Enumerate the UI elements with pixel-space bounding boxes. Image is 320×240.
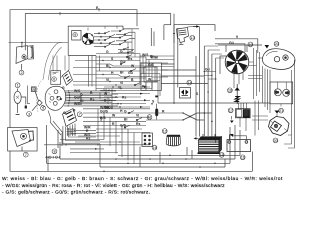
switch contacts cluster (handlebar): [94, 26, 135, 60]
svg-text:W/Bl: W/Bl: [74, 102, 82, 106]
svg-text:G: G: [120, 50, 123, 54]
component 2 box (front brake light switch): [16, 43, 34, 70]
svg-text:Bl: Bl: [106, 64, 109, 68]
wire mesh horizontals center: [60, 54, 174, 144]
svg-text:≡: ≡: [120, 102, 122, 106]
svg-text:G/S: G/S: [148, 63, 155, 67]
svg-text:W/S: W/S: [142, 53, 149, 57]
component 12 horn: [162, 128, 180, 145]
svg-text:8: 8: [54, 149, 56, 154]
svg-text:Bl: Bl: [124, 118, 127, 122]
svg-text:Vi: Vi: [118, 85, 121, 89]
component 10 tilted connector: [63, 109, 77, 137]
svg-text:9: 9: [236, 35, 238, 39]
svg-text:18: 18: [228, 88, 232, 93]
component 13 ignition coil: [173, 25, 215, 45]
svg-text:Rs: Rs: [122, 95, 126, 99]
component 7 horn box: [8, 128, 37, 152]
label circled 10: [77, 112, 82, 117]
svg-text:W: weiss - Bl: blau - G: gelb: W: weiss - Bl: blau - G: gelb - B: braun…: [2, 176, 283, 182]
label circled 18: [228, 88, 233, 93]
wires tail light drop: [263, 66, 271, 113]
switch contacts mesh: [120, 55, 142, 129]
svg-text:Rs: Rs: [128, 57, 132, 61]
svg-text:Gü: Gü: [205, 68, 210, 72]
wires right drop to relays: [231, 101, 268, 136]
wire rows low-left: [70, 148, 118, 153]
svg-text:1: 1: [17, 83, 19, 88]
component 9 ignition switch: [72, 28, 94, 45]
svg-text:17: 17: [229, 108, 233, 113]
component 19 flywheel magneto: [225, 50, 249, 74]
wire X crossing: [146, 112, 212, 120]
tiny wire labels: [62, 6, 210, 128]
svg-text:Gü: Gü: [229, 41, 234, 45]
svg-text:W/Gü: W/Gü: [104, 105, 113, 109]
svg-text:5: 5: [42, 105, 44, 110]
label circled 5: [41, 105, 46, 110]
label circled 2: [19, 70, 24, 75]
svg-text:G: G: [62, 86, 65, 90]
svg-text:- G/S: gelb/schwarz - Gü/S: gr: - G/S: gelb/schwarz - Gü/S: grün/schwarz…: [2, 189, 150, 195]
wire coil box right extension: [215, 35, 258, 53]
label circled 7: [23, 152, 28, 157]
label circled 16: [152, 145, 157, 150]
label circled 8: [52, 149, 57, 154]
svg-text:Rs: Rs: [86, 136, 90, 140]
wire left below horn: [10, 151, 48, 171]
svg-text:9: 9: [74, 32, 76, 37]
wire top loop inner: [25, 14, 170, 50]
label circled 20 tail: [274, 41, 280, 46]
svg-text:3: 3: [28, 111, 30, 116]
label circled 3: [27, 111, 32, 116]
wire tick top: [98, 8, 100, 11]
label circled 1: [15, 83, 20, 88]
label circled 21: [279, 108, 284, 113]
wire mesh verticals center: [53, 54, 160, 165]
component 18 spark plug: [235, 84, 240, 104]
label circled 20b: [273, 138, 279, 143]
svg-text:7: 7: [79, 112, 81, 117]
wire band labels mid: [100, 85, 150, 109]
svg-text:Vi: Vi: [106, 78, 109, 82]
component rectifier box: [270, 82, 293, 107]
speedo comb wires right: [64, 90, 118, 106]
svg-text:11: 11: [148, 115, 152, 120]
component 20 turn signal lamp right: [269, 111, 290, 136]
component 17 relay: [228, 103, 250, 123]
component 14 brake switch: [180, 80, 193, 98]
component 6 dimmer switch box: [51, 71, 61, 85]
wire coil stair left: [151, 25, 170, 46]
svg-text:Rs: Rs: [136, 122, 140, 126]
component 15 battery: [194, 134, 222, 154]
wire frame box left-bottom: [47, 125, 63, 163]
svg-text:Gü: Gü: [128, 71, 133, 75]
svg-text:G: G: [124, 109, 127, 113]
node diamond connector: [32, 91, 45, 111]
svg-text:16: 16: [153, 145, 157, 150]
svg-text:12: 12: [163, 128, 167, 133]
junction dots buses: [103, 102, 216, 172]
wire label row 8: [45, 156, 60, 158]
wire mid-left horizontals low: [44, 141, 150, 145]
wire magneto top: [218, 41, 262, 74]
wire comp2 feed: [9, 42, 68, 44]
component 16 regulator box bottom right: [227, 134, 251, 152]
tail light assembly: [258, 45, 295, 69]
wire left main down: [9, 43, 11, 128]
long verticals center-right: [174, 14, 224, 143]
bus horizontals right-center: [158, 64, 270, 103]
fuse: [151, 96, 158, 120]
svg-text:- W/Gü: weiss/grün - Rs: rosa: - W/Gü: weiss/grün - Rs: rosa - R: rot -…: [2, 183, 225, 189]
svg-text:G: G: [106, 50, 109, 54]
svg-text:Rs: Rs: [90, 97, 94, 101]
svg-text:16: 16: [241, 155, 245, 160]
component 16 connector block: [142, 133, 153, 147]
label circled 13: [190, 35, 195, 40]
svg-text:19: 19: [248, 42, 252, 47]
bottom bus wires: [47, 125, 253, 171]
svg-text:Gü: Gü: [120, 60, 125, 64]
component 4 connector box: [28, 86, 37, 104]
light switch tilted (handlebar): [61, 71, 73, 86]
headset dashed outline: [37, 79, 44, 112]
label circled 15: [219, 152, 224, 157]
svg-text:G/S: G/S: [120, 124, 127, 128]
node junction comp2: [21, 42, 23, 44]
headset cable outline: [44, 42, 63, 80]
svg-text:W/Bl: W/Bl: [151, 56, 159, 60]
svg-text:2: 2: [21, 70, 23, 75]
component 1 bulb (parking light): [14, 89, 27, 115]
svg-text:21: 21: [279, 108, 283, 113]
handlebar switch unit box: [68, 26, 139, 55]
wire diagonal fan below headlamp: [48, 111, 63, 136]
wires magneto right drop: [234, 48, 262, 99]
label circled 11: [147, 115, 152, 120]
svg-text:6: 6: [53, 77, 55, 82]
label circled 19: [248, 42, 253, 47]
wire right edge verticals: [284, 60, 296, 148]
svg-text:7: 7: [25, 152, 27, 157]
svg-text:Bl: Bl: [120, 71, 123, 75]
label circled 16b: [240, 155, 245, 160]
svg-text:Vi: Vi: [136, 114, 139, 118]
left frame vertical faint: [0, 0, 1, 1]
svg-text:13: 13: [190, 35, 194, 40]
component 10 fuel gauge box: [141, 63, 161, 90]
speedometer housing with bulbs: [45, 86, 66, 110]
wire top loop outer: [10, 10, 137, 43]
svg-text:Gü/S: Gü/S: [100, 109, 109, 113]
svg-text:15: 15: [220, 152, 224, 157]
